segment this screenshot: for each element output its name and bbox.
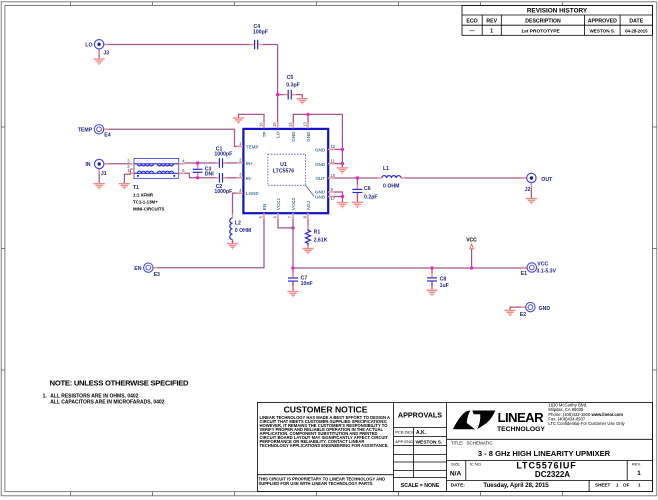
- wire IN net J1 to T1 pin3: [104, 163, 130, 165]
- svg-text:APP ENG.: APP ENG.: [395, 439, 414, 444]
- svg-text:TECHNOLOGY: TECHNOLOGY: [497, 426, 545, 433]
- svg-text:REVISION HISTORY: REVISION HISTORY: [527, 8, 588, 15]
- ground C6: [352, 202, 363, 209]
- svg-text:REV.: REV.: [632, 461, 641, 466]
- transformer T1: [127, 159, 185, 212]
- svg-text:E1: E1: [521, 271, 527, 277]
- ground R1: [302, 248, 313, 255]
- svg-text:GND: GND: [539, 306, 551, 312]
- svg-text:TITLE:SCHEMATIC: TITLE:SCHEMATIC: [451, 440, 493, 445]
- capacitor C1: [214, 146, 232, 167]
- svg-text:GND: GND: [315, 148, 326, 153]
- svg-text:APPROVED: APPROVED: [588, 18, 617, 24]
- svg-text:1000pF: 1000pF: [214, 152, 232, 158]
- wire C2 to chip pin 3: [226, 177, 243, 179]
- node C3 top: [196, 161, 199, 164]
- node VCC rail junction: [291, 266, 294, 269]
- svg-text:GND: GND: [315, 194, 326, 199]
- ground chip pin16 TP: [239, 114, 265, 123]
- wire pin 13 up: [307, 114, 309, 123]
- wire C4 to LO corner: [263, 44, 278, 46]
- svg-text:1uF: 1uF: [440, 283, 449, 289]
- wire chip pins 14,13 GND tie: [293, 114, 342, 163]
- svg-text:L1: L1: [383, 166, 389, 172]
- ground J2: [530, 184, 532, 198]
- wire C5 to ground: [296, 95, 302, 99]
- wire VCC rail: [293, 267, 527, 269]
- capacitor C2: [214, 173, 232, 195]
- LT logo: [453, 410, 546, 433]
- svg-text:LINEAR: LINEAR: [498, 410, 545, 425]
- svg-text:10nF: 10nF: [301, 281, 313, 287]
- svg-text:1: 1: [637, 470, 641, 477]
- svg-text:TP: TP: [262, 132, 267, 138]
- svg-text:TC1-1-13M+: TC1-1-13M+: [133, 199, 158, 204]
- svg-text:SCALE = NONE: SCALE = NONE: [401, 483, 440, 489]
- ground L2: [232, 240, 234, 243]
- svg-text:NOTE: UNLESS OTHERWISE SPECIFI: NOTE: UNLESS OTHERWISE SPECIFIED: [50, 378, 189, 387]
- power VCC arrow: [466, 238, 477, 268]
- node VCC1-VCC2 junction: [291, 226, 294, 229]
- svg-text:REV: REV: [486, 18, 497, 24]
- revision history table: [462, 6, 653, 36]
- capacitor C3 leads: [197, 163, 199, 169]
- svg-text:E2: E2: [520, 312, 526, 318]
- wire TEMP net E4 to pin 1: [104, 129, 243, 146]
- svg-text:WESTON S.: WESTON S.: [589, 29, 615, 34]
- wire LGND pin4 to L2: [233, 193, 244, 214]
- svg-text:ADJ: ADJ: [306, 201, 311, 211]
- svg-text:SUPPLIED FOR USE WITH LINEAR T: SUPPLIED FOR USE WITH LINEAR TECHNOLOGY …: [259, 481, 374, 486]
- wire pin 12: [334, 148, 342, 150]
- wire T1 pins 1,2 tie to ground: [124, 169, 130, 183]
- ground right GND pins: [341, 164, 343, 168]
- node C3 bottom: [196, 176, 199, 179]
- connector E1: [522, 267, 527, 269]
- svg-text:PCB DES.: PCB DES.: [395, 430, 414, 435]
- svg-text:GND: GND: [315, 162, 326, 167]
- svg-text:WESTON S.: WESTON S.: [416, 440, 443, 446]
- capacitor C3: [193, 164, 215, 177]
- svg-text:100pF: 100pF: [253, 30, 268, 36]
- svg-text:VCC1: VCC1: [276, 198, 281, 211]
- svg-text:IN: IN: [85, 162, 90, 168]
- ground E2: [504, 310, 515, 317]
- svg-text:TECHNOLOGY APPLICATIONS ENGINE: TECHNOLOGY APPLICATIONS ENGINEERING FOR …: [260, 443, 389, 448]
- svg-text:C6: C6: [364, 186, 371, 192]
- node C8 junction: [430, 266, 433, 269]
- svg-text:N/A: N/A: [450, 470, 462, 477]
- connector J1: [104, 163, 109, 165]
- svg-text:TEMP: TEMP: [246, 145, 259, 150]
- svg-text:J1: J1: [101, 171, 107, 177]
- node pin12 junction: [341, 148, 344, 151]
- wire LO vertical to pin 15: [277, 45, 279, 129]
- svg-text:1000pF: 1000pF: [214, 189, 232, 195]
- svg-text:13: 13: [303, 122, 308, 127]
- svg-text:J3: J3: [103, 50, 109, 56]
- svg-text:LTC5576: LTC5576: [273, 169, 294, 175]
- svg-text:DATE:: DATE:: [451, 482, 466, 488]
- wire VCC1 pin6 jog: [278, 219, 293, 228]
- svg-text:DNI: DNI: [205, 172, 214, 178]
- wire LO net J3 to C4: [104, 44, 250, 46]
- wire pins 9,17 tie: [334, 192, 343, 202]
- svg-text:C8: C8: [440, 277, 447, 283]
- wire L1 to J2: [404, 177, 526, 179]
- svg-text:U1: U1: [280, 162, 287, 168]
- svg-text:1st PROTOTYPE: 1st PROTOTYPE: [521, 29, 560, 35]
- svg-text:CUSTOMER NOTICE: CUSTOMER NOTICE: [284, 405, 368, 415]
- svg-text:J2: J2: [525, 187, 531, 193]
- ground T1: [119, 183, 130, 190]
- resistor R1: [306, 219, 328, 249]
- svg-text:3.1-5.3V: 3.1-5.3V: [536, 269, 556, 275]
- svg-text:16: 16: [259, 122, 264, 127]
- svg-text:2.61K: 2.61K: [314, 237, 328, 243]
- svg-text:0 OHM: 0 OHM: [383, 184, 399, 190]
- connector J2: [522, 177, 527, 179]
- node VCC arrow junction: [470, 266, 473, 269]
- node pin11 junction: [341, 162, 344, 165]
- svg-text:0.2pF: 0.2pF: [364, 195, 378, 201]
- svg-text:GND: GND: [306, 131, 311, 142]
- wire VCC2 pin7 down: [292, 219, 294, 269]
- svg-text:T1: T1: [133, 185, 139, 191]
- svg-text:ECO: ECO: [466, 18, 477, 24]
- svg-text:15: 15: [272, 122, 277, 127]
- svg-text:LO: LO: [85, 43, 92, 49]
- ground pins 9,17: [337, 202, 348, 209]
- IC U1 LTC5576: [243, 129, 328, 213]
- chip pin stubs: [237, 122, 335, 219]
- svg-text:0.3pF: 0.3pF: [286, 83, 300, 89]
- svg-text:12: 12: [331, 144, 336, 149]
- wire E2 to ground: [510, 307, 527, 310]
- svg-text:GND: GND: [291, 131, 296, 142]
- svg-text:11: 11: [331, 158, 336, 163]
- svg-text:LO: LO: [275, 131, 280, 138]
- ground C5: [297, 98, 308, 105]
- svg-text:LTC5576IUF: LTC5576IUF: [516, 460, 576, 470]
- svg-text:VCC2: VCC2: [291, 198, 296, 211]
- svg-text:1: 1: [490, 29, 493, 35]
- svg-text:E4: E4: [104, 133, 110, 139]
- svg-text:IC NO.: IC NO.: [470, 461, 482, 466]
- wire T1 pin6 jog to IN- line: [184, 173, 215, 178]
- svg-text:Tuesday, April 28, 2015: Tuesday, April 28, 2015: [483, 483, 549, 489]
- ground J3: [98, 49, 100, 58]
- svg-text:10: 10: [331, 173, 336, 178]
- connector E4: [104, 128, 109, 130]
- svg-text:14: 14: [288, 122, 293, 127]
- svg-text:R1: R1: [314, 229, 321, 235]
- svg-text:1:1 XFMR: 1:1 XFMR: [133, 192, 154, 197]
- svg-text:ALL CAPACITORS ARE IN MICROFAR: ALL CAPACITORS ARE IN MICROFARADS, 0402: [50, 399, 164, 405]
- svg-text:A.K.: A.K.: [416, 430, 427, 436]
- capacitor C8: [427, 268, 449, 290]
- svg-text:LTC Confidential-For Customer: LTC Confidential-For Customer Use Only: [548, 421, 625, 426]
- svg-text:IN-: IN-: [246, 176, 253, 181]
- ground J1: [98, 169, 100, 183]
- node LO junction C5: [276, 93, 279, 96]
- chip pin names: [246, 131, 326, 210]
- svg-text:EN: EN: [134, 266, 141, 272]
- chip pin numbers: [239, 122, 336, 219]
- svg-text:TEMP: TEMP: [78, 128, 93, 134]
- svg-text:L2: L2: [235, 221, 241, 227]
- wire pin 11: [334, 163, 342, 165]
- capacitor C7: [288, 268, 313, 291]
- svg-text:DC2322A: DC2322A: [535, 470, 570, 479]
- ground C8: [426, 290, 437, 297]
- svg-text:OUT: OUT: [315, 176, 325, 181]
- capacitor C5: [284, 75, 300, 99]
- node pin17 junction: [341, 195, 344, 198]
- svg-text:—: —: [470, 29, 475, 35]
- wire C1 to chip pin 2: [226, 162, 243, 164]
- capacitor C4: [250, 24, 268, 49]
- wire T1 pin4 to C1: [184, 162, 215, 164]
- svg-text:C5: C5: [287, 75, 294, 81]
- connector E2: [521, 306, 526, 308]
- svg-text:OUT: OUT: [541, 177, 553, 183]
- svg-text:E3: E3: [154, 272, 160, 278]
- svg-text:VCC: VCC: [466, 238, 477, 244]
- inductor L1: [378, 166, 405, 189]
- svg-text:17: 17: [331, 196, 336, 201]
- svg-text:IN+: IN+: [246, 161, 254, 166]
- connector J3: [104, 44, 109, 46]
- svg-text:DATE: DATE: [629, 18, 643, 24]
- svg-text:DESCRIPTION: DESCRIPTION: [525, 18, 561, 24]
- connector E3: [153, 267, 158, 269]
- node OUT junction C6: [356, 176, 359, 179]
- node pin13 junction: [306, 113, 309, 116]
- svg-text:APPROVALS: APPROVALS: [398, 411, 442, 420]
- svg-text:EN: EN: [262, 203, 267, 210]
- svg-text:SIZE: SIZE: [451, 462, 460, 467]
- svg-text:04-28-2015: 04-28-2015: [625, 29, 648, 34]
- svg-text:VCC: VCC: [537, 262, 548, 268]
- svg-text:0 OHM: 0 OHM: [235, 228, 251, 234]
- svg-text:LGND: LGND: [246, 191, 260, 196]
- svg-text:3 - 8 GHz HIGH LINEARITY UPMIX: 3 - 8 GHz HIGH LINEARITY UPMIXER: [478, 449, 611, 458]
- wire EN net E3 to pin 5: [153, 219, 264, 268]
- svg-text:MINI-CIRCUITS: MINI-CIRCUITS: [133, 207, 165, 212]
- wire C5 branch: [278, 94, 284, 96]
- inductor L2: [230, 214, 251, 243]
- capacitor C6: [352, 178, 377, 202]
- notes: [43, 378, 189, 405]
- title block: [258, 402, 653, 491]
- wire OUT net pin10 to L1: [334, 177, 378, 179]
- ground C7: [287, 291, 298, 298]
